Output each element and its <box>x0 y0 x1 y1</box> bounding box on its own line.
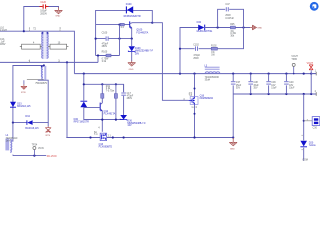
svg-text:4: 4 <box>98 127 100 129</box>
svg-text:C120: C120 <box>40 2 46 4</box>
test point TP20 VOUT <box>291 56 298 74</box>
node junction clamp base rail <box>118 24 120 26</box>
node junction source rail <box>194 113 196 115</box>
svg-text:R100: R100 <box>102 52 108 54</box>
svg-text:10V: 10V <box>127 124 132 127</box>
svg-text:Yellow: Yellow <box>309 144 316 147</box>
wire AC line upper <box>0 31 74 73</box>
wire snubber mid rail <box>119 25 121 56</box>
capacitor C37 15uF 35V <box>231 74 242 138</box>
svg-text:D34: D34 <box>197 21 202 24</box>
wire RTN run <box>13 123 48 127</box>
ground symbol top-left <box>55 7 63 17</box>
capacitor C100 470pF 250V <box>102 33 109 49</box>
wire output cap lower bus <box>233 93 316 95</box>
diode D34 MURA120T3G <box>197 21 213 33</box>
svg-text:T-4: T-4 <box>94 134 98 136</box>
diode D33 BAS316,115 <box>10 101 31 123</box>
transformer T2 aux pin line <box>27 80 48 86</box>
svg-text:250V: 250V <box>102 46 108 48</box>
svg-text:1W: 1W <box>211 55 215 57</box>
svg-text:DC-VCIN: DC-VCIN <box>47 156 57 158</box>
capacitor C47 0.047uF 250V <box>225 4 234 20</box>
node junction aux winding top <box>43 64 45 66</box>
resistor R42 <box>114 84 117 119</box>
svg-text:470pF: 470pF <box>193 55 200 57</box>
node junction D33 bottom <box>12 122 14 124</box>
wire VCIN bottom run <box>13 155 46 157</box>
svg-text:VOUT: VOUT <box>307 63 314 65</box>
transistor Q12 FCX491TA <box>84 101 116 131</box>
svg-text:10V: 10V <box>271 85 276 87</box>
svg-text:30k: 30k <box>230 36 235 38</box>
svg-text:33uH: 33uH <box>205 79 211 81</box>
svg-text:RF071M2STR: RF071M2STR <box>74 121 90 124</box>
svg-text:R102: R102 <box>211 46 217 48</box>
test point TP24 VCIN <box>32 145 44 156</box>
svg-text:3.3k: 3.3k <box>102 61 107 63</box>
svg-text:35V: 35V <box>236 88 241 90</box>
svg-text:COM: COM <box>302 160 307 161</box>
resistor R100 3.3k <box>102 52 111 63</box>
svg-text:VCIN: VCIN <box>38 148 44 150</box>
node junctions snubber cap run <box>95 38 133 40</box>
svg-text:TP20: TP20 <box>291 59 297 61</box>
node junction TP24 <box>33 155 35 157</box>
wire snubber cap run <box>96 38 133 40</box>
label left-edge input cap value <box>0 39 6 46</box>
port VOUT (red) <box>307 63 314 74</box>
node junctions bottom bus <box>89 136 234 138</box>
inductor L3 33uH <box>204 64 219 81</box>
node junction Q100 collector tap <box>151 22 153 24</box>
svg-text:2000V: 2000V <box>40 14 47 16</box>
svg-text:FCX491TA: FCX491TA <box>104 113 116 116</box>
ground flag right of R45 (red) <box>250 25 262 30</box>
wire snubber left rail <box>95 25 97 56</box>
wire aux bottom to RTN rail <box>38 80 48 122</box>
svg-text:18V: 18V <box>135 52 140 55</box>
capacitor C30 (polarized, right edge) <box>304 117 320 130</box>
wire top clamp cap net <box>24 7 59 32</box>
svg-text:0.047uF: 0.047uF <box>225 18 234 20</box>
transformer T2 secondary winding right <box>45 32 48 59</box>
svg-text:C38: C38 <box>253 82 258 84</box>
svg-text:15uF: 15uF <box>289 88 295 90</box>
transformer T2 winding box left <box>20 42 42 49</box>
svg-text:750342879: 750342879 <box>35 83 47 85</box>
svg-text:R45: R45 <box>230 24 235 26</box>
svg-text:250V: 250V <box>127 98 133 100</box>
svg-text:C47: C47 <box>225 4 230 6</box>
wire rectifier output run <box>205 27 251 29</box>
diode D32 (up, on bias rail) <box>74 101 90 123</box>
wire VOUT right rail <box>311 74 316 94</box>
capacitor C39 10uF 35V <box>266 74 277 94</box>
svg-text:C40: C40 <box>289 82 294 84</box>
resistor R102 <box>211 46 217 57</box>
capacitor C38 15uF 35V <box>248 74 259 94</box>
pin right edge 2 <box>315 91 317 96</box>
wire secondary rectifier feed <box>180 28 198 74</box>
transformer T2 winding box right <box>48 42 68 49</box>
svg-text:1mH: 1mH <box>6 141 11 143</box>
svg-text:L4: L4 <box>6 134 9 137</box>
svg-text:FDMS86202: FDMS86202 <box>200 97 214 100</box>
transistor Q16 FDMS86202 (MOSFET) <box>183 93 213 109</box>
port RTN lower (red) <box>45 126 51 136</box>
node junction at clamp tap <box>23 30 25 32</box>
node junctions lower bus <box>250 93 313 95</box>
capacitor C17 470pF 250V <box>121 84 133 115</box>
svg-text:D34: D34 <box>25 115 30 118</box>
browser extension logo (blue circle) <box>310 2 319 11</box>
node junction R100 to line <box>97 54 99 56</box>
wire Q16 source rail <box>194 104 196 137</box>
svg-text:305V: 305V <box>0 44 6 46</box>
svg-text:15uF: 15uF <box>253 85 259 87</box>
svg-text:BAS316,115: BAS316,115 <box>25 127 39 130</box>
resistor R41 3.3k <box>101 84 115 101</box>
svg-text:GND: GND <box>129 69 134 71</box>
svg-text:2.4: 2.4 <box>121 27 125 29</box>
svg-text:250V: 250V <box>193 58 199 60</box>
net label COM bottom right <box>302 160 307 162</box>
ground symbol under D103 <box>128 61 136 71</box>
wire main output bus <box>74 73 316 75</box>
svg-text:GND: GND <box>257 28 262 30</box>
svg-text:C30: C30 <box>313 128 318 130</box>
wire gate feed rail <box>152 23 188 101</box>
wire LED rail <box>303 94 305 161</box>
fuse F2 6A <box>94 131 98 136</box>
svg-text:GND: GND <box>55 16 60 18</box>
wire bottom ground bus <box>66 137 233 139</box>
node junctions rectifier run <box>217 26 245 28</box>
node junctions aux top run <box>83 83 117 85</box>
inductor L4 1mH <box>5 123 18 156</box>
svg-text:100pF: 100pF <box>40 11 47 13</box>
transistor Q100 FCH493TA <box>130 21 153 38</box>
node junctions aux lower run <box>101 119 117 121</box>
wire secondary snubber run <box>180 28 244 49</box>
diode D34 BAS316,115 (left) <box>25 115 39 130</box>
wire aux bias rail <box>84 74 124 120</box>
port RTN upper (red) <box>21 80 27 94</box>
svg-text:TP24: TP24 <box>32 145 38 147</box>
svg-text:470pF: 470pF <box>102 43 109 45</box>
pin right edge 1 <box>315 70 317 75</box>
wire AC line lower <box>0 61 98 63</box>
label left-edge filter <box>0 28 7 32</box>
node junction opto branch <box>303 120 305 122</box>
wire snubber res run <box>96 56 120 63</box>
resistor R101 2.4 <box>120 23 124 29</box>
transistor Q13 (pass element on ground bus) <box>98 127 112 148</box>
wire aux lower run <box>84 119 124 121</box>
wire clamp top rail <box>96 10 153 24</box>
zener D103 MMSZ5248B-7-F 18V <box>128 39 153 61</box>
capacitor C40 10uF 35V <box>284 74 295 94</box>
wire Q16 drain rail <box>194 74 196 97</box>
node junction T2 top pins <box>42 32 49 34</box>
svg-text:RF3B1NS2DTR: RF3B1NS2DTR <box>124 15 141 18</box>
node junction drain rail <box>194 88 196 90</box>
svg-text:C102: C102 <box>193 45 199 47</box>
svg-text:10V: 10V <box>289 85 294 87</box>
svg-text:BAS316,115: BAS316,115 <box>17 105 31 108</box>
capacitor C120 100pF 2000V (red) <box>40 2 49 15</box>
svg-text:15uF: 15uF <box>271 88 277 90</box>
svg-text:GND: GND <box>230 149 235 151</box>
wire aux winding top <box>13 66 44 102</box>
wire primary return rail <box>66 62 68 137</box>
diode D100 RF071M2STR <box>124 3 141 18</box>
svg-text:C39: C39 <box>271 82 276 84</box>
svg-text:RTN: RTN <box>21 92 26 94</box>
svg-text:C100: C100 <box>102 33 108 35</box>
node junctions on main bus <box>83 73 313 75</box>
node junction snubber tap <box>179 48 181 50</box>
zener D36 MMSZ5248B-7-F 10V <box>120 115 146 127</box>
resistor R45 30k <box>230 24 236 38</box>
svg-text:15uF: 15uF <box>236 85 242 87</box>
svg-text:T2: T2 <box>33 29 36 31</box>
node junction wire-B to primary return rail <box>66 61 68 63</box>
svg-text:D100: D100 <box>126 3 132 6</box>
net label DC-VCIN (red) <box>47 156 57 158</box>
capacitor C102 470pF 250V <box>193 45 200 60</box>
transformer T2 primary winding left <box>42 32 45 59</box>
transformer T2 label and pins <box>29 28 62 63</box>
transformer T2 aux winding <box>41 66 47 80</box>
wire aux top run <box>84 84 124 92</box>
wire C47 bypass loop <box>218 9 244 27</box>
svg-text:2.2mH: 2.2mH <box>0 30 7 32</box>
svg-text:250V: 250V <box>225 15 231 17</box>
svg-text:RTN: RTN <box>46 135 51 137</box>
wire clamp base run <box>96 24 130 26</box>
svg-text:C37: C37 <box>236 82 241 84</box>
LED D20 Yellow <box>300 135 315 150</box>
ground symbol bottom bus (red) <box>229 138 237 151</box>
svg-text:FCH493TA: FCH493TA <box>136 31 148 34</box>
svg-text:35V: 35V <box>253 88 258 90</box>
svg-text:MURA120T3G: MURA120T3G <box>197 30 213 33</box>
svg-text:FCX690BTD: FCX690BTD <box>99 145 113 148</box>
svg-text:T-0.75w: T-0.75w <box>106 91 115 93</box>
